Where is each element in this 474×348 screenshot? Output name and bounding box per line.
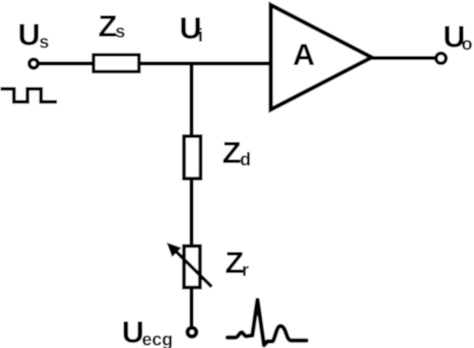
svg-text:s: s	[115, 22, 125, 42]
svg-text:r: r	[242, 260, 249, 280]
svg-text:U: U	[122, 315, 144, 348]
svg-text:ecg: ecg	[142, 329, 173, 348]
svg-text:U: U	[18, 17, 40, 52]
svg-text:A: A	[293, 37, 315, 72]
svg-text:d: d	[240, 149, 251, 169]
svg-text:Z: Z	[222, 135, 241, 170]
svg-text:o: o	[462, 34, 473, 54]
svg-text:i: i	[198, 26, 203, 46]
svg-text:s: s	[39, 32, 49, 52]
